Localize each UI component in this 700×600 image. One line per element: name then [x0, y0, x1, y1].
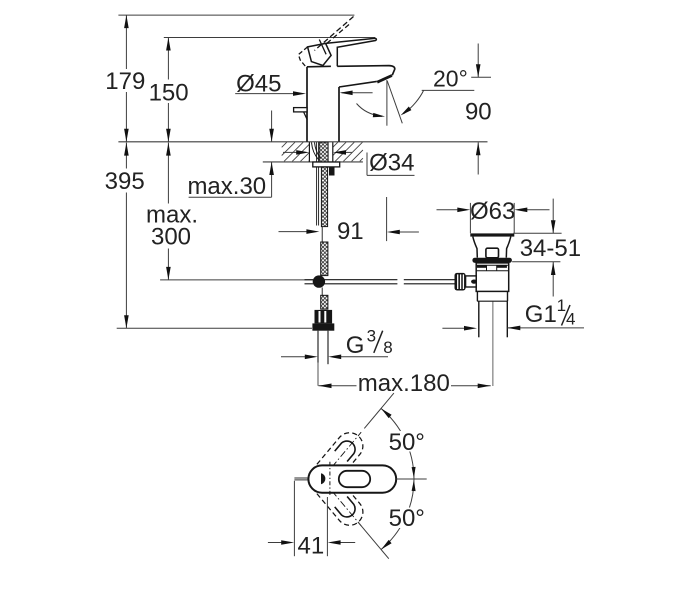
faucet body left edge — [306, 67, 308, 142]
20deg leader underline — [422, 89, 475, 91]
svg-text:4: 4 — [566, 310, 575, 329]
extension line 395 bottom ref — [117, 327, 312, 329]
hose centerline gap 2 — [321, 288, 323, 296]
dimension max.30 — [187, 111, 273, 200]
svg-text:G1: G1 — [525, 301, 557, 328]
dimension max.180 — [319, 370, 491, 397]
lower diagonal extension — [358, 522, 389, 559]
arc arrowheads — [381, 409, 416, 550]
dimension Ø45 — [235, 70, 306, 97]
svg-text:G: G — [346, 332, 365, 359]
G3/8 thread stub — [318, 331, 328, 365]
shank tube edges — [309, 142, 332, 162]
dimension 91 — [279, 197, 419, 245]
top view lever pill redraw — [339, 471, 370, 487]
svg-text:Ø63: Ø63 — [470, 198, 515, 225]
svg-text:41: 41 — [298, 533, 325, 560]
drain bell left — [473, 237, 478, 258]
svg-text:50°: 50° — [389, 505, 425, 532]
svg-text:91: 91 — [337, 218, 364, 245]
dimension G1 1/4 arrows — [442, 326, 584, 331]
pop-up rod segment B — [404, 280, 455, 284]
hose curve in shank — [312, 143, 321, 160]
svg-text:395: 395 — [105, 168, 145, 195]
svg-text:150: 150 — [149, 79, 189, 106]
water stream vertical reference — [386, 80, 388, 126]
drain seal ring — [472, 258, 512, 263]
dimension 90 — [465, 44, 492, 175]
hose centerline gap 1 — [321, 227, 323, 242]
faucet aerator — [377, 76, 392, 83]
svg-text:max.180: max.180 — [358, 370, 450, 397]
pull-rod knob on body — [294, 108, 308, 120]
label G3/8 — [346, 326, 393, 359]
braided hose segment 3 — [321, 242, 328, 276]
ball joint — [313, 275, 325, 287]
pop-up rod segment A — [324, 280, 397, 284]
dimension Ø34 arrows — [283, 150, 352, 155]
svg-text:179: 179 — [105, 68, 145, 95]
water stream 20deg line — [387, 81, 402, 123]
lever knuckle — [308, 40, 332, 66]
faucet body right edge — [338, 87, 340, 142]
top view lever rotated down (dashed) — [303, 460, 371, 534]
faucet body top edge — [307, 65, 331, 68]
faucet spout underside — [339, 81, 377, 87]
dimension 41 — [268, 481, 355, 560]
dimension 395 — [105, 143, 145, 329]
drain knurled knob — [455, 273, 466, 291]
drain body — [476, 263, 509, 292]
deck hatching — [282, 142, 363, 161]
drain tailpipe — [477, 291, 508, 337]
mounting stud — [329, 167, 335, 176]
extension line top (max height ref) — [118, 14, 354, 16]
svg-text:1: 1 — [557, 296, 566, 315]
top view horizontal centerline — [396, 478, 426, 480]
lever raised position (dashed) — [298, 17, 353, 68]
drain centerline — [492, 302, 494, 387]
svg-text:90: 90 — [465, 99, 492, 126]
label Ø34 with leader — [367, 149, 415, 176]
mounting deck top line — [118, 141, 487, 143]
top view body outline cover — [308, 465, 396, 492]
top view D detail redraw — [321, 473, 325, 484]
extension line spout-lever height ref — [164, 37, 375, 39]
top view lever rotated up (dashed) — [303, 424, 371, 498]
label G1 1/4 — [525, 296, 576, 328]
top view pull-rod stub redraw — [294, 478, 308, 480]
label 50deg upper — [387, 429, 427, 456]
dimension Ø45 right arrow — [340, 91, 373, 96]
drain rod interface — [466, 276, 477, 287]
drain top rim — [470, 233, 514, 236]
top view pivot centerline redraw — [329, 462, 331, 497]
dimension max.300 — [146, 143, 198, 280]
dimension Ø63 — [437, 198, 550, 233]
label 50deg lower — [387, 505, 427, 532]
svg-text:3: 3 — [367, 326, 376, 345]
pop-up rod left — [305, 280, 314, 284]
svg-text:300: 300 — [151, 224, 191, 251]
dimension 179 — [105, 15, 145, 142]
dimension G3/8 arrows — [281, 355, 388, 360]
svg-text:8: 8 — [383, 338, 392, 357]
upper diagonal extension — [364, 393, 394, 428]
svg-text:Ø34: Ø34 — [369, 149, 414, 176]
mounting deck bottom line — [263, 161, 363, 163]
svg-text:34-51: 34-51 — [520, 235, 581, 262]
angle arc 50deg — [381, 409, 414, 550]
svg-text:50°: 50° — [389, 429, 425, 456]
lever blade (closed position) — [326, 38, 377, 66]
drain bell right — [506, 237, 511, 258]
dimension 34-51 — [512, 199, 581, 297]
extension line max.300 bottom ref — [160, 279, 313, 281]
20deg arc left — [357, 104, 386, 118]
pull rod — [317, 142, 319, 225]
faucet spout top and tip — [337, 66, 395, 76]
braided hose segment 2 — [321, 167, 327, 227]
20deg arc right leader — [401, 90, 424, 115]
braided hose segment 1 — [319, 142, 328, 162]
extension to max.180 left — [317, 363, 319, 386]
G3/8 connector upper nut — [315, 310, 333, 324]
mounting washer — [313, 162, 340, 167]
drain lift knob — [486, 248, 499, 258]
svg-text:20°: 20° — [433, 66, 468, 92]
braided hose segment 4 — [321, 295, 328, 309]
svg-text:Ø45: Ø45 — [236, 70, 281, 97]
G3/8 connector lower nut — [312, 323, 334, 330]
dimension 150 — [149, 38, 189, 142]
svg-text:max.30: max.30 — [187, 173, 266, 200]
